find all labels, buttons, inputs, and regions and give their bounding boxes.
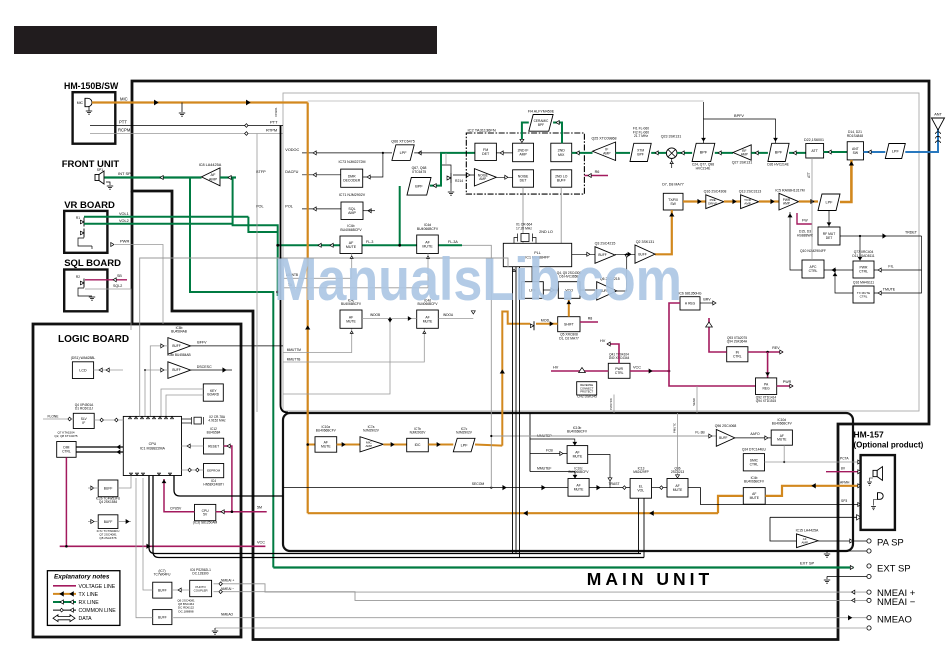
amp NOISE AMP: [474, 169, 496, 186]
microphone HM157: [878, 493, 884, 500]
wire BPFV: [702, 102, 777, 143]
wire NMEAI+: [214, 579, 868, 595]
svg-text:MMUTEF: MMUTEF: [537, 467, 552, 471]
wire NMEAI-: [214, 587, 868, 602]
svg-text:Q16 2SC4308: Q16 2SC4308: [704, 190, 727, 194]
wire BRV: [700, 298, 716, 305]
wire ant blue 1: [864, 150, 886, 154]
attenuator ATT D22: [804, 138, 824, 158]
MAIN UNIT label: [587, 569, 713, 589]
svg-text:VR BOARD: VR BOARD: [64, 200, 115, 211]
wire bus pll taps: [513, 267, 520, 558]
wire vol out: [652, 486, 668, 490]
wire MMUTTB: [283, 328, 426, 362]
svg-text:RESET: RESET: [208, 444, 219, 448]
LOGIC BOARD outline: [33, 324, 241, 637]
svg-text:FLONE: FLONE: [48, 414, 60, 418]
svg-text:DET: DET: [826, 236, 833, 240]
ground: [867, 478, 873, 485]
wire EXT SP line: [273, 561, 853, 570]
svg-text:(Optional product): (Optional product): [854, 441, 924, 450]
svg-text:(IC3) S81250AM: (IC3) S81250AM: [193, 521, 218, 525]
wire buff1 in: [150, 344, 168, 416]
wire pwr drop: [162, 258, 164, 324]
svg-text:BFFV: BFFV: [197, 341, 207, 345]
ic H REG: [679, 292, 702, 311]
filter BPF C24: [692, 143, 715, 170]
photocoupler PHOTO COUPLER IC6: [190, 568, 212, 597]
wire cpu bus2: [174, 476, 283, 497]
svg-text:Q24 DTC144EU: Q24 DTC144EU: [742, 448, 767, 452]
svg-text:SP3: SP3: [841, 499, 847, 503]
svg-text:FL-3B: FL-3B: [695, 431, 705, 435]
wire RTPM: [90, 128, 283, 136]
ic RESET IC12: [204, 427, 224, 454]
svg-text:AMP: AMP: [209, 177, 218, 181]
wire AF line: [276, 243, 340, 247]
svg-text:Explanatory notes: Explanatory notes: [54, 574, 110, 581]
svg-text:BU4584AB: BU4584AB: [171, 330, 187, 334]
svg-text:IC73 NJM2272M: IC73 NJM2272M: [339, 160, 366, 164]
svg-text:COMMON LINE: COMMON LINE: [79, 608, 117, 614]
svg-text:R6: R6: [595, 170, 600, 174]
HM-157 box: [861, 455, 895, 530]
filter XTAL BPF: [630, 127, 651, 162]
svg-text:BRV: BRV: [703, 298, 711, 302]
wire AF in: [220, 176, 236, 180]
ic SLV IF: [73, 403, 94, 429]
wire indo down: [283, 319, 392, 395]
svg-text:Q96 2SC4068: Q96 2SC4068: [715, 424, 737, 428]
wire TRDET: [840, 231, 922, 238]
wire LPF-FMDET: [414, 152, 441, 154]
wire HV in: [551, 366, 608, 373]
svg-text:RD1S4848: RD1S4848: [847, 134, 863, 138]
wire pa out: [818, 539, 867, 543]
svg-text:AMP: AMP: [348, 211, 356, 215]
wire ATT ctl: [807, 158, 812, 260]
svg-text:SP1: SP1: [97, 168, 104, 172]
speaker SP1: [95, 168, 104, 184]
wire mute2 out: [589, 482, 630, 490]
wire bus vol taps: [639, 498, 645, 557]
svg-text:BUFF: BUFF: [104, 520, 113, 524]
ic 2ND IF AMP: [513, 143, 534, 162]
wire VOL1 feed: [248, 217, 277, 232]
amp IF AMP Q25: [592, 137, 617, 161]
svg-text:ManualsLib.com: ManualsLib.com: [274, 246, 682, 313]
ic SMIC CTRL: [742, 448, 767, 471]
svg-text:FW: FW: [802, 219, 808, 223]
svg-text:PA SP: PA SP: [877, 538, 904, 549]
amp VCO AMP Q6: [597, 277, 620, 300]
wire R214-noiseamp: [453, 173, 474, 177]
wire buff-cpu nm: [143, 478, 153, 590]
svg-text:NMEAO: NMEAO: [877, 615, 912, 626]
svg-text:NMEAI −: NMEAI −: [877, 597, 916, 608]
svg-text:R214: R214: [455, 179, 463, 183]
wire NOISEAMP-DET: [496, 175, 512, 179]
cpu CPU IC1: [123, 416, 181, 475]
wire lcd: [94, 368, 123, 372]
svg-text:CTRL: CTRL: [62, 450, 71, 454]
wire mute bus fan: [529, 413, 531, 472]
wire mic from hm157: [765, 484, 861, 496]
wire ext gnd: [824, 577, 867, 584]
svg-text:NJM2902V: NJM2902V: [363, 429, 380, 433]
ground: [78, 288, 95, 300]
svg-text:CTRL: CTRL: [859, 270, 868, 274]
wire vco-amp: [580, 289, 597, 291]
wire speaker feed: [190, 178, 273, 568]
svg-text:Q2 3SK131: Q2 3SK131: [636, 240, 655, 244]
svg-text:MUTE: MUTE: [777, 438, 787, 442]
ic BUFF sq2: [97, 515, 120, 540]
wire hm157 AFMH: [840, 481, 850, 485]
watermark: [274, 246, 682, 313]
wire vco fb: [617, 254, 629, 291]
title bar: [14, 26, 437, 54]
wire FL3 tap: [462, 245, 491, 487]
svg-text:VODOC: VODOC: [285, 148, 299, 152]
svg-text:MUTE: MUTE: [750, 496, 760, 500]
svg-text:BUFF: BUFF: [557, 179, 566, 183]
svg-text:IC1 M38822MA: IC1 M38822MA: [140, 446, 166, 450]
wire VR return: [78, 238, 92, 246]
wire SECOM: [283, 482, 568, 490]
svg-text:CN301: CN301: [274, 107, 278, 117]
ic EEPROM IC4: [203, 464, 223, 487]
SQL BOARD box: [64, 270, 107, 312]
svg-text:HM-150B/SW: HM-150B/SW: [64, 81, 119, 91]
wire mute d down: [783, 445, 785, 463]
wire FM det audio: [430, 153, 475, 188]
inner shield box: [283, 93, 919, 411]
svg-text:FI4 ALFYM450E: FI4 ALFYM450E: [528, 110, 555, 114]
VR BOARD label: [64, 200, 115, 211]
ic AF MUTE IC4b mic: [743, 476, 765, 504]
ic SQL AMP IC71: [339, 193, 375, 220]
amp PWR AMP IC5: [775, 189, 804, 211]
svg-text:R8: R8: [588, 317, 593, 321]
wire hm157 8V: [826, 467, 861, 474]
svg-text:MMUTTB: MMUTTB: [287, 358, 301, 362]
svg-text:INDOA: INDOA: [443, 313, 454, 317]
svg-text:Q94 2SK364A: Q94 2SK364A: [727, 340, 748, 344]
wire ceramic loop left: [520, 123, 529, 143]
svg-text:TC7W04FU: TC7W04FU: [154, 573, 172, 577]
legend TX LINE: [53, 592, 99, 598]
filter MIC LPF: [453, 427, 475, 452]
svg-text:MIC: MIC: [120, 97, 128, 102]
wire TA: [283, 254, 429, 288]
wire rf3: [751, 151, 768, 155]
svg-text:17.20 MHz: 17.20 MHz: [516, 226, 532, 230]
resistor MOD pot: [530, 319, 557, 331]
svg-text:REV: REV: [772, 346, 780, 350]
svg-text:IC15 LA4425A: IC15 LA4425A: [796, 529, 819, 533]
svg-text:Q66 XTC6475: Q66 XTC6475: [391, 140, 415, 144]
svg-text:2ND LO: 2ND LO: [539, 230, 553, 234]
ic REVERSE CONNECT PROTECT: [577, 382, 597, 399]
ic AF MUTE row2b: [417, 299, 439, 329]
wire noise det out: [522, 187, 524, 243]
lcd LCD DS1: [71, 356, 96, 379]
svg-text:AAFO: AAFO: [750, 432, 760, 436]
svg-text:IDC: IDC: [415, 443, 421, 447]
wire VCC: [60, 541, 266, 549]
MAIN UNIT board outline: [132, 81, 929, 640]
svg-text:D26 HVC214E: D26 HVC214E: [767, 163, 789, 167]
wire 2NDLO: [539, 187, 561, 243]
svg-text:RCPM: RCPM: [118, 128, 131, 133]
wire R6: [584, 170, 608, 177]
svg-text:M62429FP: M62429FP: [633, 470, 649, 474]
svg-text:MUTE: MUTE: [346, 319, 356, 323]
wire SB: [85, 274, 127, 282]
svg-text:FL-3A: FL-3A: [448, 240, 458, 244]
svg-text:MUTE: MUTE: [673, 488, 683, 492]
svg-text:SW: SW: [670, 202, 676, 206]
wire AF line 3: [438, 240, 462, 245]
potentiometer R2: [76, 275, 84, 288]
wire vcc up: [669, 303, 680, 371]
svg-text:NMEAI −: NMEAI −: [221, 587, 234, 591]
svg-text:PTT: PTT: [119, 120, 127, 125]
svg-text:CTRL: CTRL: [615, 371, 624, 375]
wire tx1: [683, 200, 706, 204]
svg-text:IC2 TA31136FN: IC2 TA31136FN: [468, 128, 496, 133]
wire apc-pa: [788, 212, 802, 270]
wire cpu main bus: [149, 476, 644, 558]
svg-text:BPF: BPF: [415, 185, 423, 189]
amp PRE DRIVE Q16: [704, 190, 727, 209]
audio section box: [283, 413, 853, 551]
svg-text:Q23 3SK131: Q23 3SK131: [661, 135, 682, 139]
svg-text:TRDET: TRDET: [905, 231, 918, 235]
wire REV: [748, 346, 783, 354]
wire MIC: [92, 97, 308, 105]
filter CERAMIC BPF FI4: [528, 110, 555, 132]
wire vcc down: [669, 371, 756, 386]
HM-150B/SW label: [64, 81, 119, 91]
wire buffsq2: [88, 520, 131, 524]
svg-text:INT SP: INT SP: [118, 171, 131, 176]
connector PA SP: [867, 538, 904, 554]
ic AF MUTE IC4d: [417, 223, 439, 254]
wire key2: [166, 395, 203, 416]
svg-text:EEPROM: EEPROM: [207, 469, 221, 473]
wire det-pwrctrl: [858, 236, 861, 260]
wire pwr-apc: [824, 268, 853, 272]
svg-text:LPF: LPF: [461, 443, 469, 447]
wire FIL: [874, 236, 922, 272]
wire shift-vco: [567, 298, 570, 316]
svg-text:DC.128300: DC.128300: [192, 572, 208, 576]
ic 2ND MIX: [551, 143, 572, 162]
svg-text:ATT: ATT: [807, 172, 811, 178]
svg-text:MAIN UNIT: MAIN UNIT: [587, 569, 713, 589]
ic IN CTRL: [727, 336, 748, 362]
ground: [179, 103, 185, 117]
wire rtpm drop: [256, 134, 258, 413]
pll PLL IC1: [503, 243, 571, 266]
svg-text:DRIVE: DRIVE: [708, 201, 717, 205]
svg-text:CTRL: CTRL: [809, 269, 818, 273]
wire MAINTFB: [283, 254, 353, 279]
wire if1: [572, 151, 593, 155]
antenna ANT: [932, 113, 945, 144]
svg-text:LOGIC BOARD: LOGIC BOARD: [58, 334, 129, 345]
wire bond: [692, 386, 697, 413]
svg-text:PTT: PTT: [270, 120, 278, 125]
svg-text:VOL1: VOL1: [119, 212, 129, 216]
svg-text:BU4066BCFV: BU4066BCFV: [316, 429, 337, 433]
svg-text:Q4 2SK1584: Q4 2SK1584: [99, 500, 117, 504]
svg-text:SHIFT: SHIFT: [564, 322, 574, 326]
svg-text:Q27 3SK131: Q27 3SK131: [732, 161, 753, 165]
wire pa in: [770, 517, 797, 541]
wire hm157 mic jog: [718, 496, 743, 513]
crystal X2: [182, 415, 226, 425]
svg-text:Q10 NJM2904FF: Q10 NJM2904FF: [800, 249, 826, 253]
svg-text:PCTA: PCTA: [840, 457, 849, 461]
svg-text:LCD: LCD: [79, 368, 87, 372]
svg-text:POL: POL: [285, 205, 293, 209]
svg-text:BPF: BPF: [700, 151, 708, 155]
wire buff2 in: [144, 368, 168, 416]
svg-text:VCC: VCC: [257, 541, 265, 545]
svg-text:CH2 DSK245: CH2 DSK245: [577, 395, 597, 399]
wire reset-cpu: [182, 444, 204, 448]
ic AF MUTE mic: [315, 425, 337, 452]
wire VODOC branch: [363, 153, 383, 179]
svg-text:BUFF: BUFF: [104, 487, 113, 491]
svg-text:D1 RC6011J: D1 RC6011J: [75, 407, 93, 411]
mixer Q23: [661, 135, 682, 159]
svg-text:AMP: AMP: [519, 153, 527, 157]
svg-text:SEND: SEND: [692, 398, 696, 406]
svg-text:FIL: FIL: [888, 265, 893, 269]
svg-text:PWR: PWR: [120, 239, 129, 244]
svg-text:MUTE: MUTE: [573, 455, 583, 459]
wire buff-buff: [615, 252, 635, 256]
svg-text:RTPM: RTPM: [266, 128, 277, 133]
svg-text:NJM2902V: NJM2902V: [410, 431, 427, 435]
amp MIC AMP IC7a: [360, 425, 383, 452]
switch TX/RX SW: [662, 183, 684, 211]
svg-text:HM-157: HM-157: [854, 430, 885, 440]
svg-text:PWR SW: PWR SW: [609, 398, 613, 410]
wire if3: [651, 151, 666, 155]
wire MMUTTM: [283, 328, 353, 352]
wire in ctrl in: [706, 318, 727, 352]
svg-text:HSB88WR: HSB88WR: [797, 233, 814, 237]
svg-text:AMP: AMP: [783, 202, 790, 206]
ic PWR CTRL main: [608, 353, 630, 379]
svg-text:FL-3: FL-3: [366, 240, 373, 244]
svg-text:AMP: AMP: [479, 177, 486, 181]
wire buff2-cpu nm: [136, 478, 153, 618]
wire BTFP-DACFU: [256, 170, 341, 177]
ic FM DET: [475, 143, 497, 160]
wire cpu pll bus: [140, 258, 508, 416]
svg-text:DATA: DATA: [79, 616, 93, 622]
svg-text:IC71 NJM2902V: IC71 NJM2902V: [339, 193, 366, 197]
wire SQL2: [85, 284, 131, 330]
connector NMEAI-: [867, 597, 916, 608]
wire ceramic loop right: [553, 121, 562, 144]
ic 2ND LO BUFF: [551, 170, 572, 187]
svg-text:CTRL: CTRL: [860, 294, 868, 298]
filter LPF Q66: [391, 140, 415, 161]
wire slv-cpu: [94, 418, 123, 422]
legend DATA: [53, 615, 92, 622]
svg-text:Q25 XTC09868: Q25 XTC09868: [592, 137, 617, 141]
wire MMUTEF: [530, 467, 577, 479]
svg-text:VOLTAGE LINE: VOLTAGE LINE: [79, 584, 116, 590]
ic NOISE DET: [513, 170, 534, 187]
svg-text:DET: DET: [520, 179, 527, 183]
svg-text:VOL: VOL: [637, 489, 644, 493]
connector EXT SP: [867, 564, 911, 579]
svg-text:TX LINE: TX LINE: [79, 592, 99, 598]
svg-text:BUFF: BUFF: [158, 588, 167, 592]
svg-text:DET: DET: [482, 152, 490, 156]
wire mc2: [383, 443, 406, 447]
wire PCTA: [765, 457, 862, 464]
crystal X1: [514, 223, 536, 244]
svg-text:SW: SW: [853, 151, 859, 155]
ic AF MUTE row2a: [340, 299, 362, 329]
svg-text:Q94 XTD1515: Q94 XTD1515: [756, 399, 777, 403]
potentiometer VR1: [76, 216, 84, 238]
wire AF line 2: [362, 186, 417, 247]
wire mod line: [500, 312, 530, 446]
wire PTT: [90, 120, 283, 128]
wire mc3: [428, 443, 453, 447]
svg-text:BUFF: BUFF: [158, 615, 167, 619]
resistor R214: [442, 165, 463, 195]
svg-text:HV: HV: [553, 366, 559, 370]
wire indoad: [438, 311, 475, 319]
wire pc-buff: [172, 588, 190, 592]
svg-text:BPFV: BPFV: [734, 114, 744, 118]
ic AF MUTE IC10d: [771, 418, 792, 445]
svg-text:AMP: AMP: [801, 541, 808, 545]
wire buffsq1: [88, 476, 131, 490]
ic PA REG: [756, 378, 777, 403]
svg-text:IC8 LA4425A: IC8 LA4425A: [199, 163, 222, 167]
amp BUFF IC8b 2: [167, 353, 190, 378]
wire FL3B line: [490, 431, 716, 438]
VR BOARD box: [64, 211, 107, 253]
ic AF MUTE IC10b: [567, 426, 588, 463]
amp RF AMP Q27: [732, 145, 753, 165]
switch ANT SW: [847, 130, 864, 160]
svg-text:BU4066BCFV: BU4066BCFV: [417, 227, 439, 231]
ic KEY BOARD: [203, 384, 223, 401]
svg-text:(DS1) WA6288L: (DS1) WA6288L: [71, 356, 96, 360]
legend box: [47, 571, 120, 626]
wire rf1: [677, 151, 692, 155]
svg-text:BU4066BCFV: BU4066BCFV: [568, 470, 589, 474]
svg-text:PMUTC: PMUTC: [673, 423, 677, 433]
ic BUFF sq1: [96, 480, 121, 504]
svg-text:INDOB: INDOB: [370, 313, 380, 317]
amp BUFF Q96: [715, 424, 737, 446]
ic BUFF nmea1: [153, 569, 172, 598]
